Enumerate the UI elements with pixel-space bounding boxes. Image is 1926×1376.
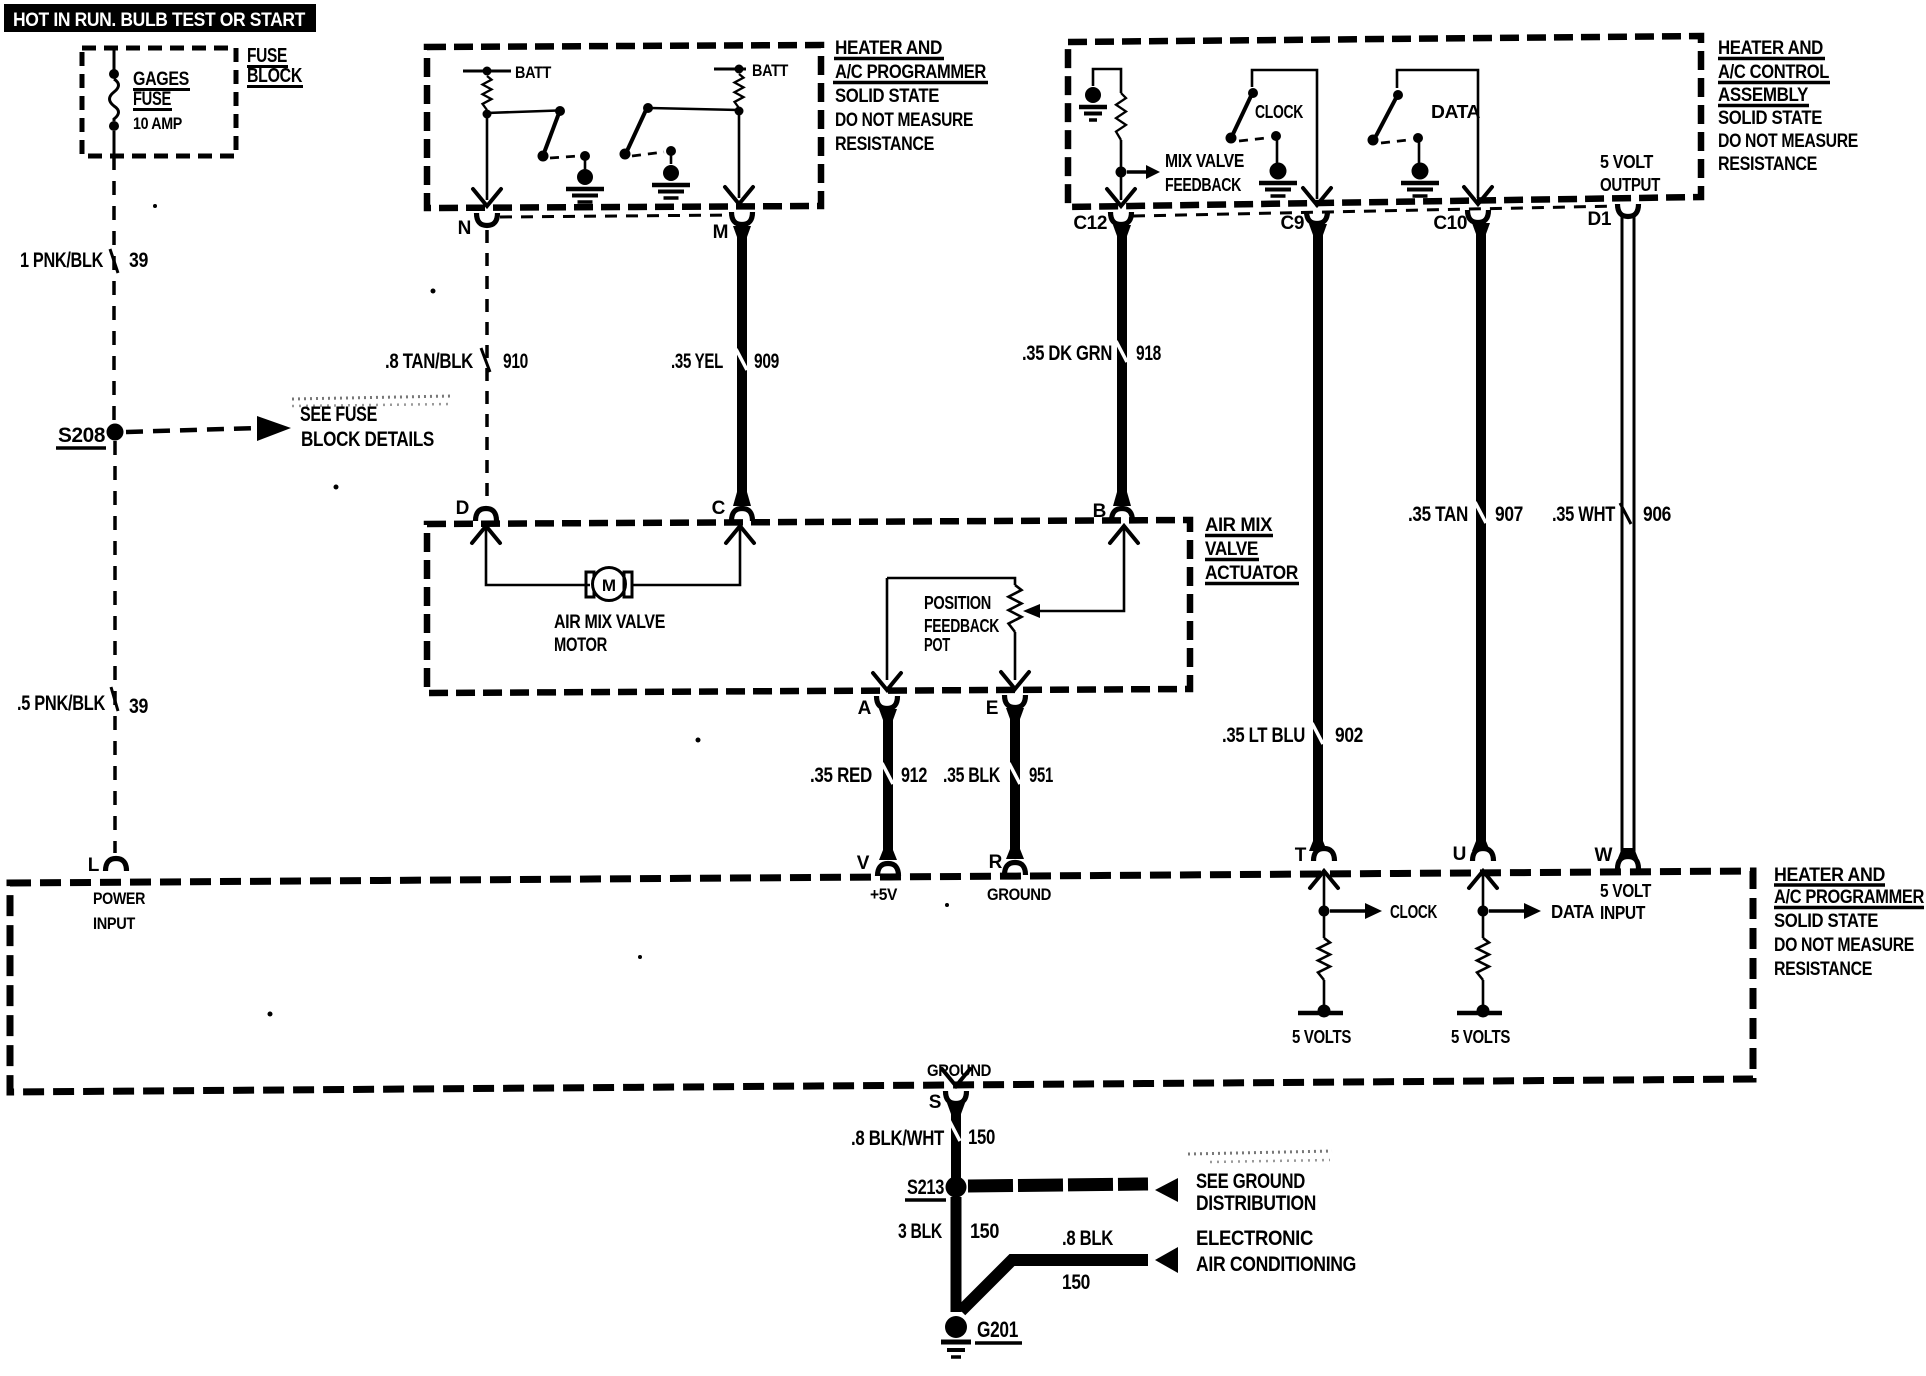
svg-text:1 PNK/BLK: 1 PNK/BLK bbox=[20, 249, 103, 272]
svg-text:CLOCK: CLOCK bbox=[1390, 902, 1437, 922]
svg-text:.8 TAN/BLK: .8 TAN/BLK bbox=[385, 350, 473, 373]
speck marks bbox=[431, 289, 436, 294]
pin D cap bbox=[476, 509, 497, 522]
svg-text:POSITION: POSITION bbox=[924, 593, 991, 613]
resistor mix valve feedback bbox=[1116, 93, 1126, 140]
fuse block dashed box bbox=[82, 48, 236, 156]
svg-text:.35 RED: .35 RED bbox=[810, 764, 872, 787]
switch left: dashed throw bbox=[550, 156, 578, 158]
ground (mix valve feedback) bbox=[1085, 87, 1101, 103]
switch left: fixed contact bbox=[580, 151, 590, 161]
connector row line (right box) bbox=[1133, 206, 1617, 216]
switch CLOCK blade bbox=[1233, 96, 1251, 134]
fuse GAGES FUSE 10 AMP bbox=[110, 79, 119, 121]
pin A cup bbox=[877, 696, 898, 709]
svg-text:GROUND: GROUND bbox=[987, 885, 1051, 904]
wire .5 PNK/BLK 39 (S208 to L) bbox=[113, 441, 117, 853]
svg-text:C12: C12 bbox=[1073, 213, 1107, 234]
svg-text:.35 YEL: .35 YEL bbox=[671, 350, 723, 373]
wire left junction to N bbox=[486, 118, 489, 200]
wire .35 DK GRN 918 (C12 to B) bbox=[1117, 225, 1127, 500]
svg-text:AIR CONDITIONING: AIR CONDITIONING bbox=[1196, 1253, 1356, 1276]
svg-text:.35 DK GRN: .35 DK GRN bbox=[1022, 342, 1112, 365]
wire .35 BLK 951 (E to R) bbox=[1010, 710, 1020, 857]
svg-text:N: N bbox=[458, 218, 471, 239]
switch CLOCK fixed contact bbox=[1271, 131, 1281, 141]
arrow CLOCK (bottom) bbox=[1330, 909, 1366, 913]
wire T to clock junction bbox=[1323, 874, 1326, 906]
ground (right BATT switch) bbox=[663, 165, 679, 181]
component box HEATER AND A/C PROGRAMMER (top) bbox=[427, 45, 821, 208]
splice S213 bbox=[946, 1177, 967, 1198]
svg-text:909: 909 bbox=[754, 350, 779, 373]
wire D to motor bbox=[486, 529, 590, 585]
pot top wire bbox=[887, 578, 1015, 585]
svg-text:BATT: BATT bbox=[515, 63, 552, 82]
svg-text:L: L bbox=[88, 855, 100, 876]
terminal 5 VOLTS (clock) bbox=[1318, 1005, 1331, 1018]
svg-text:FUSE: FUSE bbox=[247, 45, 287, 67]
svg-text:.35 BLK: .35 BLK bbox=[943, 764, 1000, 787]
svg-text:RESISTANCE: RESISTANCE bbox=[835, 134, 934, 155]
svg-text:AIR MIX VALVE: AIR MIX VALVE bbox=[554, 612, 665, 633]
svg-text:39: 39 bbox=[129, 249, 148, 272]
wire .8 TAN/BLK 910 (N to D) bbox=[485, 230, 489, 505]
splice S208 bbox=[107, 424, 124, 441]
wire junction to switch pivot (left) bbox=[487, 111, 558, 114]
svg-text:A/C PROGRAMMER: A/C PROGRAMMER bbox=[1774, 887, 1925, 908]
wire .35 WHT 906 (D1 to W) double line bbox=[1621, 216, 1624, 855]
terminal BATT (left) bbox=[463, 70, 511, 73]
pin arrow C (inside) bbox=[726, 526, 754, 543]
svg-text:FEEDBACK: FEEDBACK bbox=[924, 616, 999, 636]
svg-text:907: 907 bbox=[1495, 503, 1523, 526]
svg-text:DATA: DATA bbox=[1551, 902, 1594, 922]
svg-text:S208: S208 bbox=[58, 424, 106, 447]
terminal BATT (right) bbox=[714, 68, 746, 71]
motor AIR MIX VALVE MOTOR bbox=[586, 572, 594, 597]
svg-text:C: C bbox=[712, 498, 726, 519]
svg-text:ACTUATOR: ACTUATOR bbox=[1205, 563, 1299, 584]
banner HOT IN RUN, BULB TEST OR START bbox=[4, 4, 316, 32]
svg-text:E: E bbox=[986, 698, 998, 719]
svg-text:HEATER AND: HEATER AND bbox=[1774, 865, 1885, 886]
resistor clock pull-up bbox=[1323, 916, 1326, 938]
svg-text:GROUND: GROUND bbox=[927, 1061, 991, 1080]
pin T cap bbox=[1314, 849, 1335, 862]
svg-text:5 VOLTS: 5 VOLTS bbox=[1292, 1027, 1351, 1047]
pin E cup bbox=[1005, 695, 1026, 708]
wire motor to C bbox=[632, 529, 740, 585]
switch left: pivot bbox=[555, 106, 565, 116]
pin C9 cup bbox=[1307, 211, 1328, 224]
pin arrow B (inside) bbox=[1110, 526, 1138, 543]
svg-text:ELECTRONIC: ELECTRONIC bbox=[1196, 1227, 1313, 1250]
wire 3 BLK 150 (S213 to G201) bbox=[951, 1197, 962, 1312]
pin arrow M bbox=[725, 187, 753, 204]
svg-text:POWER: POWER bbox=[93, 889, 145, 908]
wire contact to ground (CLOCK) bbox=[1276, 139, 1279, 163]
pin S cup bbox=[946, 1091, 967, 1104]
svg-text:+5V: +5V bbox=[870, 885, 898, 904]
pin C cap bbox=[732, 509, 753, 522]
svg-text:.35 TAN: .35 TAN bbox=[1408, 503, 1468, 526]
svg-text:M: M bbox=[602, 576, 616, 595]
component box HEATER AND A/C CONTROL ASSEMBLY bbox=[1068, 36, 1701, 207]
pin W cap bbox=[1618, 848, 1638, 858]
pin V cap bbox=[878, 864, 899, 877]
resistor data pull-up bbox=[1482, 916, 1485, 938]
svg-text:150: 150 bbox=[970, 1220, 999, 1243]
pin N cup bbox=[477, 213, 498, 226]
svg-text:S: S bbox=[929, 1092, 941, 1113]
svg-text:BLOCK DETAILS: BLOCK DETAILS bbox=[301, 428, 434, 451]
pot wiper arrow bbox=[1023, 604, 1040, 618]
resistor right BATT bbox=[735, 74, 744, 108]
svg-text:GAGES: GAGES bbox=[133, 69, 189, 90]
wire ground branch top (right box) bbox=[1093, 69, 1121, 93]
svg-text:951: 951 bbox=[1029, 764, 1054, 787]
svg-text:RESISTANCE: RESISTANCE bbox=[1718, 154, 1817, 175]
svg-text:DISTRIBUTION: DISTRIBUTION bbox=[1196, 1192, 1316, 1215]
switch CLOCK wiring bbox=[1252, 70, 1317, 199]
svg-text:A/C PROGRAMMER: A/C PROGRAMMER bbox=[835, 62, 987, 83]
pin D1 cup bbox=[1618, 204, 1639, 217]
svg-text:ASSEMBLY: ASSEMBLY bbox=[1718, 85, 1809, 106]
switch DATA pivot bbox=[1393, 90, 1403, 100]
wire B to pot wiper bbox=[1040, 529, 1124, 611]
svg-text:DO NOT MEASURE: DO NOT MEASURE bbox=[835, 110, 973, 131]
svg-text:5 VOLT: 5 VOLT bbox=[1600, 881, 1651, 901]
pin arrow E (inside) bbox=[1001, 672, 1029, 689]
svg-text:HEATER AND: HEATER AND bbox=[1718, 38, 1823, 59]
ground (CLOCK switch) bbox=[1270, 163, 1287, 180]
svg-text:10 AMP: 10 AMP bbox=[133, 114, 182, 133]
pin C12 cup bbox=[1111, 212, 1132, 225]
wire contact to ground (DATA) bbox=[1418, 141, 1421, 163]
pin R cap bbox=[1005, 863, 1026, 876]
svg-text:S213: S213 bbox=[907, 1176, 944, 1199]
node mix valve feedback junction bbox=[1116, 167, 1127, 178]
wire U to data junction bbox=[1482, 874, 1485, 906]
switch right: dashed throw bbox=[632, 152, 664, 156]
svg-text:RESISTANCE: RESISTANCE bbox=[1774, 959, 1872, 980]
svg-text:C9: C9 bbox=[1281, 213, 1305, 234]
arrow MIX VALVE FEEDBACK bbox=[1127, 170, 1147, 174]
node data junction bbox=[1478, 906, 1489, 917]
svg-text:POT: POT bbox=[924, 635, 950, 655]
svg-text:.35 LT BLU: .35 LT BLU bbox=[1222, 724, 1305, 747]
svg-text:INPUT: INPUT bbox=[1600, 903, 1645, 923]
svg-text:VALVE: VALVE bbox=[1205, 539, 1258, 560]
svg-text:OUTPUT: OUTPUT bbox=[1600, 175, 1660, 195]
svg-text:SOLID STATE: SOLID STATE bbox=[835, 86, 939, 107]
svg-text:W: W bbox=[1594, 845, 1612, 866]
node fuse top terminal bbox=[109, 69, 119, 79]
svg-text:DO NOT MEASURE: DO NOT MEASURE bbox=[1718, 131, 1858, 152]
connector row line C410 bbox=[500, 215, 733, 217]
ground G201 bbox=[945, 1316, 967, 1338]
svg-text:.5 PNK/BLK: .5 PNK/BLK bbox=[17, 692, 105, 715]
svg-text:BATT: BATT bbox=[752, 61, 789, 80]
speck bbox=[334, 485, 339, 490]
wire contact to ground (left) bbox=[584, 158, 587, 169]
pin arrow T (inside) bbox=[1310, 871, 1338, 888]
switch left: blade bbox=[544, 113, 559, 153]
svg-text:SOLID STATE: SOLID STATE bbox=[1774, 911, 1878, 932]
svg-text:5 VOLT: 5 VOLT bbox=[1600, 152, 1653, 172]
arrow to fuse block details bbox=[126, 428, 258, 432]
svg-text:5 VOLTS: 5 VOLTS bbox=[1451, 1027, 1510, 1047]
svg-text:T: T bbox=[1295, 845, 1307, 866]
node right junction bbox=[735, 107, 744, 116]
wire junction to switch pivot (right) bbox=[650, 108, 739, 110]
wire fuse bottom lead bbox=[113, 131, 116, 156]
switch DATA fixed contact bbox=[1413, 133, 1423, 143]
pin arrow A (inside) bbox=[873, 673, 901, 690]
svg-text:HEATER AND: HEATER AND bbox=[835, 38, 942, 59]
svg-text:FEEDBACK: FEEDBACK bbox=[1165, 175, 1241, 195]
wire .8 BLK 150 branch bbox=[961, 1260, 1148, 1311]
svg-text:DATA: DATA bbox=[1431, 102, 1480, 122]
ground (DATA switch) bbox=[1412, 163, 1429, 180]
node fuse bottom terminal bbox=[109, 121, 119, 131]
scan speckle above SEE GROUND bbox=[1188, 1151, 1332, 1154]
node clock junction bbox=[1319, 906, 1330, 917]
pin L cap bbox=[106, 859, 127, 872]
switch DATA dashed throw bbox=[1381, 140, 1408, 143]
pin B cap bbox=[1112, 509, 1133, 522]
wire .8 BLK/WHT 150 (S to S213) bbox=[951, 1104, 961, 1180]
arrow DATA (bottom) bbox=[1489, 909, 1525, 913]
svg-text:SEE FUSE: SEE FUSE bbox=[300, 403, 377, 426]
wire .35 LT BLU 902 (C9 to T) bbox=[1313, 224, 1323, 849]
svg-text:SOLID STATE: SOLID STATE bbox=[1718, 108, 1822, 129]
svg-text:910: 910 bbox=[503, 350, 528, 373]
svg-text:918: 918 bbox=[1136, 342, 1162, 365]
svg-text:150: 150 bbox=[1062, 1271, 1090, 1294]
wire 1 PNK/BLK 39 (fuse to S208) bbox=[112, 156, 116, 424]
svg-text:SEE GROUND: SEE GROUND bbox=[1196, 1170, 1305, 1193]
ground (left BATT switch) bbox=[577, 169, 593, 185]
pin M cup bbox=[732, 212, 753, 225]
svg-text:902: 902 bbox=[1335, 724, 1363, 747]
svg-text:39: 39 bbox=[129, 695, 148, 718]
svg-text:MIX VALVE: MIX VALVE bbox=[1165, 151, 1244, 171]
pin U cap bbox=[1473, 849, 1494, 862]
wire right junction to M bbox=[738, 115, 741, 198]
svg-text:BLOCK: BLOCK bbox=[247, 65, 303, 87]
svg-text:R: R bbox=[989, 852, 1003, 873]
svg-text:.35 WHT: .35 WHT bbox=[1552, 503, 1615, 526]
svg-text:A: A bbox=[858, 698, 872, 719]
svg-text:912: 912 bbox=[901, 764, 927, 787]
node left junction bbox=[483, 110, 492, 119]
svg-text:CLOCK: CLOCK bbox=[1255, 102, 1303, 122]
switch DATA wiring bbox=[1397, 70, 1478, 198]
svg-text:U: U bbox=[1453, 844, 1466, 865]
svg-text:HOT IN RUN. BULB TEST OR START: HOT IN RUN. BULB TEST OR START bbox=[13, 10, 306, 31]
svg-text:906: 906 bbox=[1643, 503, 1671, 526]
svg-text:DO NOT MEASURE: DO NOT MEASURE bbox=[1774, 935, 1914, 956]
resistor left BATT bbox=[483, 76, 492, 110]
component box AIR MIX VALVE ACTUATOR bbox=[427, 520, 1190, 693]
svg-text:3 BLK: 3 BLK bbox=[898, 1220, 942, 1243]
wire fuse top lead bbox=[113, 48, 116, 70]
pin arrow C9 bbox=[1303, 188, 1331, 205]
svg-text:G201: G201 bbox=[977, 1317, 1018, 1342]
svg-text:.8 BLK/WHT: .8 BLK/WHT bbox=[851, 1127, 944, 1150]
wire junction to C12 bbox=[1120, 177, 1123, 200]
svg-text:MOTOR: MOTOR bbox=[554, 635, 608, 656]
switch right: pivot bbox=[643, 103, 653, 113]
svg-text:V: V bbox=[857, 853, 870, 874]
pin arrow N bbox=[473, 189, 501, 206]
pot bottom wire to E bbox=[1014, 632, 1017, 680]
svg-text:M: M bbox=[713, 222, 728, 243]
switch right: fixed contact bbox=[666, 146, 676, 156]
svg-text:AIR MIX: AIR MIX bbox=[1205, 515, 1273, 536]
svg-text:INPUT: INPUT bbox=[93, 914, 136, 933]
pin arrow U (inside) bbox=[1469, 871, 1497, 888]
svg-text:150: 150 bbox=[968, 1126, 995, 1149]
pin arrow C12 bbox=[1107, 189, 1135, 206]
terminal 5 VOLTS (data) bbox=[1477, 1005, 1490, 1018]
wire .35 RED 912 (A to V) bbox=[883, 710, 893, 858]
pin C10 cup bbox=[1468, 210, 1489, 223]
pin arrow S (inside) bbox=[942, 1069, 970, 1086]
pin arrow D (inside) bbox=[472, 526, 500, 543]
switch right: blade bbox=[627, 110, 646, 151]
position feedback pot resistor bbox=[1009, 585, 1022, 632]
wire pot top to A bbox=[886, 578, 889, 680]
svg-text:.8 BLK: .8 BLK bbox=[1062, 1227, 1113, 1250]
arrow to ground distribution bbox=[968, 1184, 1148, 1186]
svg-text:C10: C10 bbox=[1433, 213, 1467, 234]
svg-text:D: D bbox=[456, 498, 469, 519]
svg-text:FUSE: FUSE bbox=[133, 89, 171, 110]
pin arrow C10 bbox=[1464, 187, 1492, 204]
svg-text:B: B bbox=[1093, 501, 1106, 522]
switch CLOCK pivot bbox=[1248, 88, 1258, 98]
svg-text:D1: D1 bbox=[1588, 209, 1612, 230]
svg-text:A/C CONTROL: A/C CONTROL bbox=[1718, 62, 1830, 83]
wire contact to ground (right) bbox=[670, 153, 673, 164]
switch DATA blade bbox=[1376, 98, 1396, 136]
wire .35 TAN 907 (C10 to U) bbox=[1476, 223, 1486, 849]
switch CLOCK dashed throw bbox=[1239, 138, 1266, 141]
component box HEATER AND A/C PROGRAMMER (bottom) bbox=[10, 871, 1753, 1092]
scan speckle above SEE FUSE bbox=[292, 396, 452, 399]
wire .35 YEL 909 (M to C) bbox=[737, 227, 747, 500]
